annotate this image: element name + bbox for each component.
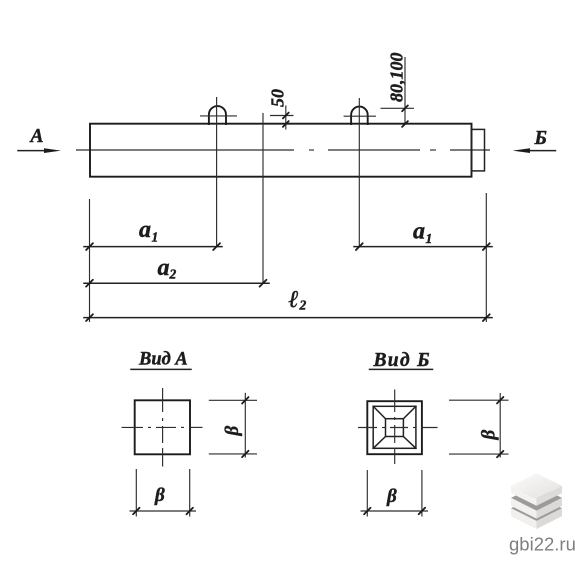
svg-text:2: 2 [169,267,177,282]
svg-text:Б: Б [534,128,547,149]
svg-text:50: 50 [268,89,288,107]
svg-text:2: 2 [299,298,307,313]
svg-text:β: β [479,430,500,441]
svg-text:β: β [386,486,397,507]
svg-text:Вид Б: Вид Б [373,350,431,371]
svg-text:gbi22.ru: gbi22.ru [509,534,575,555]
svg-text:a: a [158,255,170,281]
svg-text:1: 1 [426,231,433,246]
svg-text:β: β [222,426,243,437]
svg-text:a: a [139,217,151,243]
svg-text:80,100: 80,100 [387,53,407,103]
svg-text:a: a [413,219,425,245]
svg-text:А: А [29,126,44,147]
svg-text:ℓ: ℓ [289,287,299,313]
svg-text:Вид А: Вид А [138,350,188,370]
svg-text:β: β [154,485,165,506]
svg-text:1: 1 [152,230,159,245]
